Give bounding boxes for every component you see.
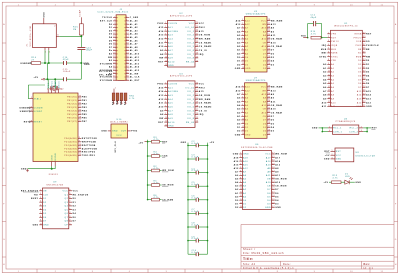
svg-text:OE: OE [263,109,267,111]
svg-text:8: 8 [240,177,241,179]
svg-text:I/O_8: I/O_8 [187,58,195,60]
svg-text:A2: A2 [245,45,248,48]
svg-text:D4: D4 [109,36,113,39]
svg-text:VCC: VCC [336,155,342,157]
svg-text:A12: A12 [159,37,165,40]
svg-text:WE_RAM: WE_RAM [271,86,283,89]
capacitor C5 0.1uF [188,182,208,188]
resistor network RN1 4.7k [112,87,134,104]
svg-text:A12: A12 [236,89,242,92]
svg-text:A7: A7 [245,93,248,96]
svg-text:A14: A14 [266,160,271,163]
svg-text:A15: A15 [159,86,165,89]
svg-text:RST: RST [366,34,372,36]
svg-text:IRQ: IRQ [322,45,327,47]
svg-text:PHI2O: PHI2O [354,37,362,39]
svg-text:PB1(X1): PB1(X1) [67,100,77,102]
svg-text:A14: A14 [236,86,242,89]
svg-text:RE_44: RE_44 [186,122,195,124]
svg-text:A11: A11 [159,41,164,44]
label WR_ROM [162,170,174,172]
svg-text:A0: A0 [109,53,113,56]
svg-text:A4: A4 [331,78,335,81]
svg-text:EXT_CLK: EXT_CLK [100,21,113,23]
svg-text:D2: D2 [237,64,241,66]
U5 right pins [261,19,283,70]
U1 left pins [319,32,339,108]
svg-text:RST/PTO2D: RST/PTO2D [82,138,98,140]
svg-text:A12: A12 [245,23,250,26]
junction cap ladder C2 [187,145,208,147]
svg-text:VCC: VCC [265,154,271,156]
power +5V symbol [33,77,44,80]
svg-text:D1: D1 [358,64,361,66]
svg-text:PHI2: PHI2 [157,84,164,86]
svg-text:AL9: AL9 [168,57,173,60]
svg-text:D5: D5 [263,61,266,63]
svg-text:GND: GND [181,142,187,144]
svg-text:AL5: AL5 [168,102,173,105]
capacitor C6 0.1uF [188,196,208,202]
svg-text:VG3-8039+-13M: VG3-8039+-13M [30,26,32,47]
resistor R3 4.7k [148,137,162,143]
svg-text:GND: GND [275,207,281,209]
svg-text:A14: A14 [245,86,250,89]
svg-text:A12: A12 [159,98,165,101]
svg-text:I/O_6: I/O_6 [187,110,195,112]
oscillator U10 ACS-1.84MHz body [110,119,128,138]
svg-text:PD3(AIN3): PD3(AIN3) [64,147,77,150]
svg-text:8: 8 [79,137,80,139]
svg-text:A10: A10 [266,181,271,184]
svg-text:D3: D3 [366,72,370,74]
svg-text:U6: U6 [255,144,259,146]
svg-text:10: 10 [350,271,354,273]
svg-text:PB0: PB0 [82,97,88,99]
svg-text:VCC: VCC [261,20,267,22]
svg-text:0.1uF: 0.1uF [192,211,199,213]
PLD U2 ATF22V10C body [168,13,196,67]
svg-text:D3: D3 [263,134,266,136]
svg-text:AL_A6: AL_A6 [130,39,138,42]
label TXLED net [99,71,113,73]
svg-text:AL_A4: AL_A4 [130,33,139,36]
svg-text:WE: WE [262,90,266,92]
svg-text:OE: OE [267,179,271,181]
svg-text:A3: A3 [237,41,241,44]
svg-text:A5: A5 [237,34,241,37]
svg-text:11: 11 [165,60,168,62]
svg-text:D3: D3 [263,68,266,70]
svg-text:A2: A2 [245,111,248,114]
svg-text:PB3(X3): PB3(X3) [67,107,77,109]
svg-text:7: 7 [40,212,41,214]
svg-text:PD2(AIN2): PD2(AIN2) [64,144,77,147]
svg-text:3: 3 [242,93,243,95]
svg-text:100nF: 100nF [63,71,71,73]
svg-text:U4: U4 [344,118,348,120]
svg-text:2: 2 [361,127,362,129]
svg-text:A17: A17 [266,156,271,159]
svg-text:9: 9 [165,53,166,55]
svg-text:4.7k: 4.7k [311,34,316,36]
svg-text:A15: A15 [199,90,205,93]
U4 left wiring [319,127,333,133]
connector J1 Conn_02x20_Odd_Even body [97,9,129,81]
svg-text:D7: D7 [358,87,361,89]
svg-text:14: 14 [126,36,129,38]
capacitor C4 0.1uF [188,168,208,174]
svg-text:15: 15 [113,39,116,41]
svg-text:A14: A14 [357,94,362,97]
label RST [162,141,168,143]
resistor R2 4.7k [148,166,162,172]
svg-text:2: 2 [40,193,41,195]
svg-text:PHI2: PHI2 [199,27,206,29]
svg-text:Conn_02x20_Odd_Even: Conn_02x20_Odd_Even [97,11,129,13]
capacitor C16 47pF [63,57,70,65]
svg-text:AL6: AL6 [168,106,173,109]
svg-text:A5: A5 [331,82,334,85]
svg-text:H: H [3,264,5,266]
svg-text:A12: A12 [357,101,362,104]
svg-text:A9: A9 [323,97,327,100]
svg-text:A3: A3 [243,185,247,188]
svg-text:31: 31 [113,66,116,68]
svg-text:4: 4 [240,163,241,165]
U3 right pins [186,83,213,124]
U6 right pins [265,153,287,209]
svg-text:AL1: AL1 [168,26,173,29]
svg-text:RW: RW [366,56,370,58]
svg-text:D5: D5 [267,196,271,198]
svg-text:UCBDP: UCBDP [34,111,43,113]
junction R14 left [307,37,323,39]
svg-text:A15: A15 [357,90,362,93]
svg-text:8: 8 [165,109,166,111]
svg-text:D5: D5 [43,213,47,215]
svg-text:VCC: VCC [116,135,122,137]
svg-text:C: C [395,96,397,98]
svg-text:E: E [3,168,5,170]
svg-text:OE_RAM: OE_RAM [271,38,282,41]
svg-text:D1: D1 [235,203,239,205]
svg-text:D: D [395,132,397,134]
svg-text:ATF22V10C-15P6: ATF22V10C-15P6 [170,14,193,17]
wire C12 right leg [321,24,323,38]
wire +5v row [45,78,81,80]
svg-text:A11: A11 [262,38,267,41]
svg-text:PB4(X4): PB4(X4) [67,111,77,113]
label USBDM to MCU [19,107,30,110]
svg-text:SPI_CLK: SPI_CLK [115,141,117,153]
label GND right of C16 [83,63,89,65]
svg-text:CS_RAM2: CS_RAM2 [199,106,212,109]
svg-text:D1: D1 [237,61,241,63]
svg-text:D0: D0 [237,57,241,59]
capacitor C9 0.1uF [188,236,208,242]
svg-text:SO: SO [125,101,127,105]
svg-text:D4: D4 [271,60,275,63]
svg-text:A10: A10 [262,111,267,114]
svg-text:AL_CLK: AL_CLK [130,76,140,79]
svg-text:15: 15 [268,67,271,69]
svg-text:A7: A7 [235,170,239,173]
svg-text:AL_A2: AL_A2 [130,26,138,29]
svg-text:RWB: RWB [356,56,362,58]
svg-text:8: 8 [165,49,166,51]
svg-text:2: 2 [165,26,166,28]
junction cap ladder C6 [187,199,208,201]
svg-text:VCC: VCC [48,82,50,88]
text F34931 [49,174,59,176]
svg-text:4.7k: 4.7k [154,182,159,184]
svg-text:WR/PTO4B: WR/PTO4B [82,141,96,144]
capacitor C8 0.1uF [188,223,208,229]
svg-text:A15: A15 [234,163,240,166]
svg-text:XTAL1: XTAL1 [34,97,42,100]
svg-text:GND: GND [366,106,372,108]
svg-text:A17: A17 [275,156,281,159]
svg-text:D1: D1 [245,61,248,63]
svg-text:Rev:: Rev: [364,263,371,266]
svg-text:E: E [395,168,397,170]
svg-text:VPB: VPB [331,34,336,36]
svg-text:D5: D5 [109,40,113,42]
svg-text:I/O_2: I/O_2 [187,35,195,37]
svg-text:9: 9 [40,220,41,222]
svg-text:I/O_L0: I/O_L0 [186,27,195,29]
svg-text:39: 39 [113,79,116,81]
svg-text:W65C02S6TPG-14: W65C02S6TPG-14 [334,26,358,28]
svg-text:25: 25 [113,56,116,58]
U5 left pins [235,19,251,70]
svg-text:1: 1 [114,16,115,18]
svg-text:4: 4 [242,30,243,32]
svg-text:File: 65c02_SBC_mk3.sch: File: 65c02_SBC_mk3.sch [243,251,284,255]
svg-text:ALE/PTO6B: ALE/PTO6B [82,147,98,150]
svg-text:+5V: +5V [33,77,38,79]
svg-text:A0: A0 [243,195,247,198]
svg-text:D4: D4 [263,131,267,133]
svg-text:13: 13 [113,36,116,38]
svg-text:AL7: AL7 [168,49,173,52]
svg-text:A9: A9 [271,97,275,100]
svg-text:ATF22V10C-15P6: ATF22V10C-15P6 [170,75,193,78]
svg-text:2: 2 [242,89,243,91]
svg-text:A10: A10 [322,101,328,104]
svg-text:A4: A4 [109,66,113,69]
label OE_ROM [162,185,174,187]
no-connect mark left of J1 [88,49,89,51]
svg-text:A8: A8 [263,97,266,100]
svg-text:7: 7 [242,108,243,110]
junction pullup R3 [147,141,149,143]
svg-text:WE: WE [262,24,266,26]
wire xtal1 feed [28,85,45,99]
svg-text:15: 15 [268,133,271,135]
svg-text:D6: D6 [275,193,279,195]
svg-text:GND: GND [265,207,271,209]
svg-text:8: 8 [242,45,243,47]
svg-text:1: 1 [329,127,330,129]
IC U4 PT8A04RBQ2/S body [333,118,359,134]
svg-text:5: 5 [328,48,329,50]
svg-text:A11: A11 [266,174,271,177]
svg-text:4.7k: 4.7k [154,197,159,199]
svg-text:6: 6 [242,38,243,40]
svg-text:A6: A6 [109,72,113,75]
svg-text:5: 5 [40,205,41,207]
svg-text:0.1uF: 0.1uF [192,170,199,172]
svg-text:RDY: RDY [331,37,337,39]
flash ROM U6 SST39SF040 body [241,144,273,210]
U6 left pins [233,153,249,209]
svg-text:40: 40 [126,79,129,81]
svg-text:D2: D2 [245,64,248,66]
wire C14 to gnd row [80,50,82,63]
svg-text:A9: A9 [331,97,334,100]
svg-text:7: 7 [240,174,241,176]
svg-text:AL_A14: AL_A14 [130,66,140,69]
svg-text:BE: BE [358,49,362,51]
U4 right wiring [359,127,371,133]
U9 left net labels [21,190,39,227]
svg-text:+5V: +5V [138,142,143,144]
svg-text:RXD1/PD2: RXD1/PD2 [82,152,96,154]
svg-text:RST: RST [158,122,164,124]
svg-text:GND: GND [243,154,249,156]
svg-text:D7: D7 [263,53,266,55]
svg-text:RE_44: RE_44 [186,61,195,63]
svg-text:0.1uF: 0.1uF [192,252,199,254]
wire right vertical to 5v row [80,63,82,79]
svg-text:A3: A3 [235,185,239,188]
svg-text:0.1uF: 0.1uF [192,225,199,227]
svg-text:11: 11 [68,223,71,225]
svg-text:9: 9 [240,181,241,183]
svg-text:D6: D6 [267,193,271,195]
svg-text:CAS: CAS [162,155,168,158]
svg-text:A3: A3 [245,41,248,44]
svg-text:GND: GND [355,182,361,184]
svg-text:GND: GND [245,134,251,136]
svg-text:A7: A7 [245,27,248,30]
svg-text:D6: D6 [43,217,47,219]
svg-text:I/O_2: I/O_2 [187,95,195,97]
svg-text:D6: D6 [109,44,113,46]
svg-text:30: 30 [126,63,129,65]
junction mcu gnd [51,168,53,170]
svg-text:1: 1 [328,32,329,34]
power GND symbol mcu [21,169,29,172]
junction U4 left [322,127,324,132]
svg-text:1: 1 [165,22,166,24]
svg-text:D3: D3 [109,34,113,36]
svg-text:22: 22 [126,49,129,51]
label GND cap ladder [181,142,187,144]
svg-text:RW: RW [159,58,163,60]
svg-text:GND: GND [44,12,46,18]
svg-text:A10: A10 [271,41,277,44]
svg-text:G: G [395,239,397,241]
svg-text:6: 6 [328,52,329,54]
U10 right pin out [128,131,139,133]
svg-text:11: 11 [381,4,384,6]
svg-text:AL8: AL8 [168,113,173,116]
MCU left pins [29,97,42,123]
svg-text:A9: A9 [271,30,275,33]
svg-text:VCC: VCC [261,87,267,89]
svg-text:A3: A3 [331,75,334,78]
svg-text:USBDM: USBDM [20,63,30,65]
svg-text:27: 27 [113,59,116,61]
svg-text:TXD1/PD3: TXD1/PD3 [82,155,96,157]
svg-text:AL7: AL7 [168,109,173,112]
svg-text:0.1uF: 0.1uF [192,197,199,199]
svg-text:VSS: VSS [356,106,361,108]
svg-text:D4: D4 [263,64,267,66]
svg-text:A1: A1 [245,115,248,118]
IC U8 DS1813-5+T&R body [335,148,376,162]
svg-text:COR_1: COR_1 [333,131,342,133]
svg-text:WE_RAM: WE_RAM [271,19,283,22]
svg-text:GND: GND [112,131,118,133]
svg-text:A6: A6 [235,174,239,177]
svg-text:MLB: MLB [331,49,337,51]
svg-text:AL9: AL9 [168,117,173,120]
svg-text:CE_ROM: CE_ROM [275,186,286,188]
svg-text:D1: D1 [237,127,241,129]
capacitor C10 0.1uF [188,250,208,256]
svg-text:2: 2 [240,156,241,158]
svg-text:A6: A6 [331,86,334,89]
svg-text:A8: A8 [271,27,275,30]
svg-text:RST: RST [336,151,342,153]
power +5V ladder symbol [138,142,147,145]
svg-text:CP: CP [64,225,68,227]
svg-text:15: 15 [196,56,199,58]
svg-text:OUT: OUT [121,131,127,133]
svg-text:D5: D5 [275,196,279,198]
svg-text:A3: A3 [237,108,241,111]
svg-text:28: 28 [126,59,129,61]
svg-text:5: 5 [165,98,166,100]
svg-text:AL_A8: AL_A8 [130,46,138,49]
svg-text:SYNC: SYNC [331,56,338,58]
junction +5v row [46,78,56,80]
svg-text:0.1uF: 0.1uF [192,238,199,240]
svg-text:IRQ: IRQ [199,54,204,56]
svg-text:D3: D3 [271,64,275,66]
capacitor C7 0.1uF [188,209,208,215]
svg-text:SYC/ROM: SYC/ROM [100,77,113,79]
U1 right pins [354,32,379,108]
svg-text:7: 7 [242,41,243,43]
svg-text:ACS-1.84MHz: ACS-1.84MHz [110,121,128,124]
svg-text:A9: A9 [263,34,266,37]
svg-text:A9: A9 [160,49,164,52]
svg-text:AL5: AL5 [168,41,173,44]
svg-text:D7: D7 [366,87,370,89]
svg-text:A4: A4 [323,78,327,81]
svg-text:RST: RST [24,122,30,124]
junction cap ladder C9 [187,240,208,242]
svg-text:BUSY: BUSY [31,198,39,200]
svg-text:4: 4 [165,34,166,36]
svg-text:CS_IO: CS_IO [199,110,207,112]
svg-text:A14: A14 [159,30,165,33]
